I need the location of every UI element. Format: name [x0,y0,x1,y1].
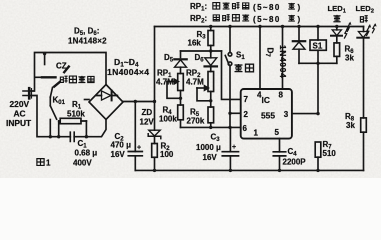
relay contact K01 [50,88,56,137]
junction: pin3 node [316,112,319,115]
svg-text:6: 6 [243,124,248,133]
wire: pin 8 to top rail [282,27,284,90]
label: D5 D6 annotation [68,27,107,46]
svg-text:555: 555 [261,111,275,121]
svg-text:3: 3 [284,110,289,119]
svg-text:): ) [298,15,301,24]
junction: R5 at pin6 wire [209,126,212,129]
label: R6 3k [345,45,355,63]
svg-text:): ) [298,3,301,12]
wire: AC top line from plug to bridge [31,53,106,92]
svg-text:270k: 270k [187,117,205,126]
junction: RP2 wiper tie [209,99,212,102]
hanzi: 红 [360,16,367,23]
svg-text:4.7M: 4.7M [186,78,204,87]
resistor R8 3k [361,118,367,170]
capacitor C4 2200P [273,139,285,171]
svg-text:100k: 100k [159,115,177,124]
label: IC 555 pin numbers [243,91,289,138]
svg-text:2: 2 [244,110,249,119]
wire: pin 6 [181,126,241,128]
label: D1~D4 annotation [107,57,149,77]
LED1 green [331,22,351,43]
junction: DC+ at riser [153,100,156,103]
junction: LED1 at top rail [335,25,338,28]
wire: pin 2 [230,112,241,114]
svg-text:3k: 3k [346,121,355,130]
svg-text:510k: 510k [67,110,85,119]
label: R7 510 [323,140,337,158]
svg-text:470 μ: 470 μ [111,141,132,150]
hanzi: 输出插座 [60,76,67,83]
label: R8 3k [345,112,355,130]
wire: node below R3 [181,50,222,52]
svg-text:CZ: CZ [56,62,67,71]
junction: R3 at top rail [209,25,212,28]
diode D7 1N4004 [293,27,305,64]
pot RP2 4.7M [197,72,214,108]
hanzi: 分 line2 [288,15,295,21]
svg-text:IC: IC [262,95,270,105]
junction: R3 bottom node [209,49,212,52]
label: D7 1N4004 vertical [264,45,287,78]
wire: top +V rail [155,26,364,28]
figure label 图1 [37,159,44,166]
label: R3 16k [188,30,207,48]
hanzi: 分 line1 [288,3,295,9]
zener diode ZD 12V [148,130,161,143]
svg-text:5: 5 [275,128,280,137]
diode D5 [174,51,186,74]
wire: AC bottom line C1 to bridge [74,120,106,137]
svg-text:1N4148×2: 1N4148×2 [68,37,107,46]
svg-text:1N4004×4: 1N4004×4 [107,67,149,77]
svg-text:1: 1 [46,159,51,168]
svg-text:1N4004: 1N4004 [278,45,287,78]
capacitor C3 1000u 16V [222,127,238,170]
resistor R2 100 [152,144,158,171]
svg-text:220V: 220V [10,99,30,109]
label: C2 values [111,132,142,159]
wire: bottom 0V rail [135,169,363,171]
junction: S1 at pin2 wire [228,112,231,115]
hanzi: 定时调节 line2 [213,15,219,21]
plug 220V AC input [23,88,32,98]
svg-text:+: + [137,145,141,152]
junction: pin8 at top rail [281,25,284,28]
junction: D7 at top rail [297,25,300,28]
resistor R1 510k [59,118,87,136]
wire: +V riser to top rail / down to ZD [154,27,156,131]
svg-text:8: 8 [279,91,284,100]
LED2 red [357,23,376,118]
hanzi: 绿 [333,15,340,22]
label: RP1 4.7M [156,69,174,87]
junction: pin4 at top rail [258,25,261,28]
capacitor C2 470u 16V [128,102,142,171]
svg-text:2200P: 2200P [283,158,307,167]
capacitor C1 0.68u 400V [70,132,74,141]
label: 220V AC INPUT [6,99,32,128]
bridge rectifier D1-D4 [85,85,124,120]
IC 555 timer [241,89,292,139]
svg-text:(5~80: (5~80 [253,15,281,24]
label: C1 values [73,139,97,168]
pot RP1 4.7M [167,74,183,106]
socket CZ [35,54,69,87]
junction: socket tap on AC top line [43,52,46,55]
wire: pin 7 path [222,51,241,99]
svg-text:16V: 16V [203,153,218,162]
diode D6 [205,51,217,72]
svg-text:+: + [232,144,236,151]
svg-text:16k: 16k [188,39,202,48]
svg-text:100: 100 [160,150,174,159]
label: R5 270k [187,108,205,126]
junction: R1 left [57,135,60,138]
svg-text:1000 μ: 1000 μ [196,143,221,152]
junction: relay branch node [316,62,319,65]
svg-text:S1: S1 [313,42,323,51]
svg-text:510: 510 [323,149,337,158]
svg-text:(5~80: (5~80 [253,3,281,12]
wire: pin 4 to top rail [259,27,261,90]
junction: S1 at pin6 wire [228,126,231,129]
wire: pin 3 output [292,113,318,115]
switch S1 (quick start) [225,27,232,128]
label: ZD 12V [140,108,155,127]
label: C4 2200P [283,147,307,167]
junction: relay at top rail [316,25,319,28]
svg-text:3k: 3k [345,54,354,63]
junction: S1 at top rail [228,25,231,28]
label: RP2 4.7M [186,69,204,87]
svg-text:AC: AC [14,109,26,119]
svg-text:400V: 400V [73,159,92,168]
label: C3 values [196,133,236,163]
junction: C2 tap [134,100,137,103]
label: R4 100k [159,106,177,124]
junction: C4 at bottom rail [278,169,281,172]
resistor R7 510 [315,142,321,170]
hanzi: 快启 [235,64,243,72]
hanzi: 开机调节 line1 [213,3,220,10]
resistor R6 3k [334,43,340,63]
label: R2 100 [160,142,174,160]
junction: RP1 wiper tie [179,97,182,100]
svg-text:1: 1 [254,129,259,138]
svg-text:16V: 16V [111,150,126,159]
junction: K01 to AC line [49,135,52,138]
junction: R1 right [85,135,88,138]
svg-text:7: 7 [244,95,249,104]
wire: AC bottom line from plug to C1 [31,96,70,137]
svg-text:0.68 μ: 0.68 μ [75,149,98,158]
resistor R3 16k [208,27,214,52]
label: LED1 LED2 headers [328,4,374,14]
junction: R7 at bottom rail [316,169,319,172]
svg-text:INPUT: INPUT [6,118,32,128]
relay coil S1 box [310,27,326,114]
svg-text:12V: 12V [140,118,155,127]
svg-text:ZD: ZD [142,108,153,117]
junction: C3 at bottom rail [229,169,232,172]
label: RP1 line annotation [190,2,301,25]
wire: DC+ from bridge to main riser [123,101,155,103]
junction: R2 at bottom rail [153,169,156,172]
wire: relay branch node horizontal [299,62,337,64]
resistor R4 100k [178,105,184,127]
resistor R5 270k [208,107,214,127]
svg-text:4.7M: 4.7M [156,78,174,87]
